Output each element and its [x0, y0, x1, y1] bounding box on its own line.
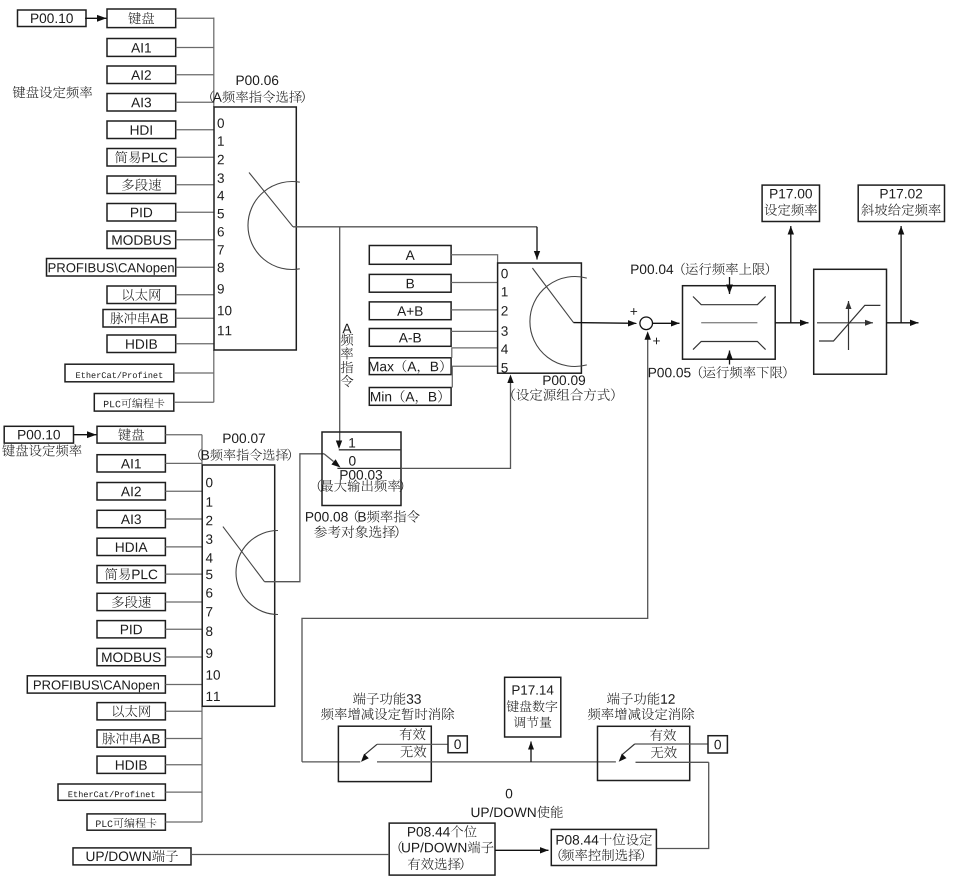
- lever switch 12: [622, 744, 634, 755]
- wire AI2 (A2) to selector: [176, 74, 214, 76]
- wire 简易PLC (B5) to selector: [165, 573, 202, 575]
- box 键盘 (A0): [107, 9, 176, 28]
- labels selector B inputs 0-11: [206, 478, 220, 701]
- label + (A/B input): [630, 308, 637, 315]
- wire B lever into P00.03 switch 0 terminal: [324, 454, 334, 462]
- label （A频率指令选择）: [210, 90, 304, 103]
- arrow P00.05 into limiter bottom: [729, 351, 731, 365]
- box AI2 (A2): [107, 66, 176, 84]
- label 参考对象选择）: [314, 525, 398, 538]
- wire HDIA (B4) to selector: [165, 546, 202, 548]
- selector P00.09 box: [498, 263, 582, 373]
- box PLC可编程卡 (B14): [87, 814, 165, 830]
- box PROFIBUS\CANopen (A9): [47, 259, 176, 277]
- box 脉冲串AB (B11): [97, 730, 165, 747]
- label P00.09: [543, 375, 585, 385]
- wire 0 terminal line: [337, 467, 401, 469]
- box P00.10 (B source): [4, 426, 73, 443]
- wire AI2 (B2) to selector: [165, 490, 202, 492]
- wire Min to input 5: [452, 366, 498, 387]
- wire AI3 (B3) to selector: [165, 518, 202, 520]
- wire summing junction to limiter: [653, 322, 680, 324]
- selector P00.06 box: [214, 107, 296, 350]
- box AI2 (B2): [97, 483, 165, 501]
- arrowhead into P00.09 bottom: [507, 375, 513, 384]
- label P00.04（运行频率上限）: [631, 263, 769, 276]
- box PID (A7): [107, 204, 176, 222]
- arrow P00.10 to 键盘 (B): [74, 434, 97, 436]
- wire to P17.02: [900, 226, 902, 323]
- wire PID (A7) to selector: [176, 211, 214, 213]
- box AI3 (B3): [97, 510, 165, 527]
- box MODBUS (B8): [97, 648, 165, 665]
- ramp vertical axis: [848, 301, 850, 350]
- box Max（A，B）: [369, 358, 451, 375]
- box P17.00: [762, 185, 819, 221]
- box PLC可编程卡 (A14): [94, 394, 174, 412]
- box HDIA (B4): [97, 538, 165, 555]
- wire 1 terminal line: [339, 449, 401, 451]
- wire AI3 (A3) to selector: [176, 101, 214, 103]
- label 无效 (switch 33): [400, 745, 426, 757]
- box P08.44十位设定: [551, 829, 656, 865]
- label 有效 (switch 12): [650, 729, 676, 741]
- box P00.10 (A source): [18, 10, 87, 27]
- wire B output: [265, 454, 325, 582]
- label （B频率指令选择）: [198, 449, 291, 461]
- selector P00.07 box: [202, 465, 275, 706]
- labels selector P00.09 inputs 0-5: [501, 269, 508, 373]
- limiter box: [683, 286, 776, 360]
- label P00.06: [237, 75, 279, 85]
- ramp box: [814, 269, 887, 374]
- selector P00.09 arc: [530, 277, 587, 367]
- wire A 频率指令 branch down to P00.03 switch: [339, 227, 341, 443]
- wire A-B to input 3: [451, 330, 498, 332]
- box HDI (A4): [107, 121, 176, 139]
- selector P00.07 wiper: [223, 527, 265, 582]
- label P00.07: [223, 433, 265, 443]
- wire A into P00.09 top: [536, 227, 538, 260]
- label 1 terminal: [349, 438, 355, 447]
- wire PLC可编程卡 (B14) to selector: [165, 821, 202, 823]
- wire 键盘 (B0) to selector: [165, 434, 202, 436]
- wire bus B bottom: [201, 706, 203, 822]
- box 脉冲串AB (A11): [103, 310, 176, 328]
- switch P00.03 box: [322, 432, 401, 506]
- wire AI1 (B1) to selector: [165, 462, 202, 464]
- wire 多段速 (A6) to selector: [176, 184, 214, 186]
- wire 有效 line (switch 33): [377, 743, 448, 745]
- wire HDIB (A12) to selector: [176, 343, 214, 345]
- box MODBUS (A8): [107, 231, 176, 249]
- box HDIB (A12): [107, 335, 176, 353]
- wire PROFIBUS\CANopen (A9) to selector: [176, 266, 214, 268]
- label 频率增减设定消除: [588, 708, 694, 721]
- wire bus B top: [201, 435, 203, 465]
- box 以太网 (A10): [107, 286, 176, 304]
- label 0 terminal: [349, 456, 356, 466]
- wire 键盘 (A0) to selector: [176, 17, 214, 19]
- selector P00.07 arc: [236, 531, 278, 615]
- limiter mid line: [701, 322, 757, 324]
- wire P00.03 to P00.09 bottom: [401, 379, 511, 469]
- ramp curve: [819, 305, 880, 341]
- wire PLC可编程卡 (A14) to selector: [174, 401, 214, 403]
- arrow P00.04 into limiter top: [729, 277, 731, 294]
- box 多段速 (A6): [107, 176, 176, 194]
- wire A to input 0: [451, 255, 498, 263]
- wire 脉冲串AB (B11) to selector: [165, 738, 202, 740]
- box P17.02: [858, 185, 944, 221]
- wire 无效 line (switch 33): [377, 761, 616, 763]
- label 0 (UP/DOWN enable): [506, 789, 513, 799]
- wire HDIB (B12) to selector: [165, 764, 202, 766]
- box 多段速 (B6): [97, 593, 165, 610]
- wire A output: [293, 226, 537, 228]
- limiter top clip symbol: [693, 297, 766, 305]
- wire PID (B7) to selector: [165, 628, 202, 630]
- wire limiter to ramp: [775, 322, 808, 324]
- box Min（A，B）: [369, 388, 451, 406]
- summing junction circle: [640, 317, 653, 330]
- box AI1 (B1): [97, 455, 165, 472]
- lever switch 33: [365, 744, 378, 755]
- wire PROFIBUS\CANopen (B9) to selector: [165, 684, 202, 686]
- box AI3 (A3): [107, 94, 176, 112]
- box 以太网 (B10): [97, 703, 165, 720]
- wire AI1 (A1) to selector: [176, 47, 214, 49]
- label 键盘设定频率 (A): [13, 86, 92, 99]
- box EtherCat/Profinet (A13): [65, 364, 174, 382]
- wire switch 12 down to P08.44 十位: [656, 762, 708, 848]
- box 简易PLC (B5): [97, 566, 165, 583]
- wire 脉冲串AB (A11) to selector: [176, 317, 214, 319]
- wire 多段速 (B6) to selector: [165, 601, 202, 603]
- wire UP/DOWN端子 to P08.44个位: [191, 854, 389, 856]
- label P00.08（B频率指令: [306, 510, 420, 523]
- wire UP/DOWN into switch 33: [302, 761, 360, 763]
- wire bus A bottom: [213, 350, 215, 402]
- limiter bottom clip symbol: [693, 342, 766, 350]
- label 端子功能33: [353, 692, 421, 704]
- box UP/DOWN端子: [73, 848, 191, 865]
- label （设定源组合方式）: [511, 388, 614, 401]
- label （最大输出频率）: [318, 479, 403, 492]
- label 有效 (switch 33): [400, 728, 426, 740]
- box P17.14: [505, 677, 561, 737]
- wire 以太网 (A10) to selector: [176, 294, 214, 296]
- label 端子功能12: [607, 692, 675, 704]
- wire MODBUS (B8) to selector: [165, 656, 202, 658]
- labels selector A inputs 0-11: [217, 118, 231, 335]
- box PID (B7): [97, 621, 165, 638]
- wire 有效 line (switch 12): [635, 743, 708, 745]
- box P08.44个位: [389, 823, 495, 875]
- arrow P00.10 to 键盘 (A): [85, 17, 106, 19]
- box HDIB (B12): [97, 756, 165, 773]
- wire EtherCat/Profinet (A13) to selector: [174, 372, 214, 374]
- box AI1 (A1): [107, 39, 176, 57]
- wire EtherCat/Profinet (B13) to selector: [165, 791, 202, 793]
- label UP/DOWN使能: [472, 806, 563, 818]
- box A-B: [369, 329, 451, 347]
- box 键盘 (B0): [97, 426, 165, 443]
- label 频率增减设定暂时消除: [321, 708, 454, 721]
- label A频率指令 (vertical): [342, 324, 351, 333]
- box 简易PLC (A5): [107, 149, 176, 167]
- switch 端子功能33 box: [338, 726, 431, 781]
- box B: [369, 274, 451, 292]
- label P00.03: [340, 470, 382, 480]
- arrow P08.44个位 to 十位: [495, 849, 549, 851]
- wire ramp output: [887, 322, 919, 324]
- box A+B: [369, 302, 451, 320]
- wire to P17.14: [530, 742, 532, 762]
- wire UP/DOWN adjust to summing junction: [302, 334, 648, 762]
- wire MODBUS (A8) to selector: [176, 239, 214, 241]
- label 无效 (switch 12): [651, 746, 677, 758]
- box A: [369, 246, 451, 265]
- ramp horizontal axis: [817, 322, 873, 324]
- wire bus A top: [213, 18, 215, 108]
- wire B to input 1: [451, 282, 498, 284]
- selector P00.06 arc: [248, 181, 300, 269]
- box EtherCat/Profinet (B13): [58, 784, 165, 800]
- box PROFIBUS\CANopen (B9): [27, 676, 165, 693]
- wire P00.09 output to summing junction: [574, 322, 637, 325]
- wire 无效 line (switch 12): [636, 761, 709, 763]
- label P00.05（运行频率下限）: [649, 366, 787, 379]
- box 0 (switch 33): [448, 736, 467, 753]
- selector P00.09 wiper: [532, 268, 573, 323]
- label + (UP/DOWN input): [653, 338, 660, 345]
- wire HDI (A4) to selector: [176, 129, 214, 131]
- wire Max to input 4: [452, 348, 498, 358]
- selector P00.06 wiper: [249, 173, 293, 227]
- wire 简易PLC (A5) to selector: [176, 156, 214, 158]
- wire to P17.00: [790, 226, 792, 323]
- box 0 (switch 12): [708, 736, 727, 753]
- wire A+B to input 2: [451, 309, 498, 311]
- wire 以太网 (B10) to selector: [165, 710, 202, 712]
- label 键盘设定频率 (B): [2, 444, 81, 457]
- switch 端子功能12 box: [598, 726, 690, 780]
